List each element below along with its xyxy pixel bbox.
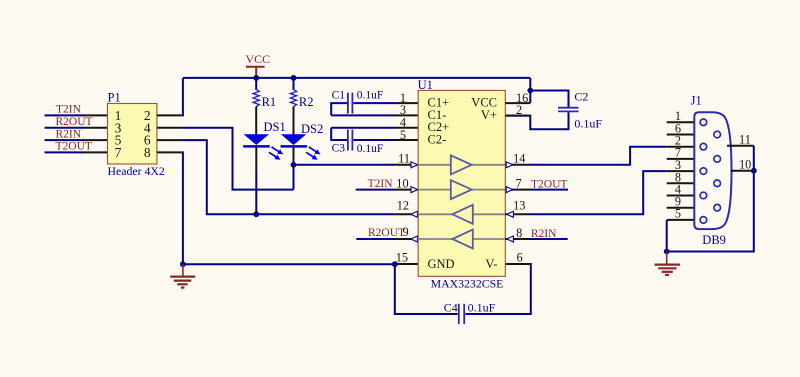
junction pin15 / ground rail: [392, 261, 398, 267]
buffer T1: [451, 155, 472, 174]
svg-text:Header 4X2: Header 4X2: [108, 164, 165, 178]
wire row12 to U1: [256, 213, 394, 215]
svg-text:C4: C4: [444, 301, 458, 315]
wire pin14 to DB9 pin2: [530, 147, 667, 165]
svg-text:11: 11: [398, 151, 410, 165]
pin P1.6: [157, 139, 182, 141]
junction C2 branch: [527, 88, 533, 94]
buffer R2: [452, 230, 472, 249]
wire P1.2 to VCC rail: [182, 78, 183, 116]
pin U1.11: [394, 164, 418, 166]
pin U1.7: [505, 189, 530, 191]
DB9 pin circles right column: [714, 131, 721, 211]
wire U1 pin3 row: [331, 114, 394, 116]
pin P1.7: [84, 151, 108, 153]
internal line row T2: [419, 189, 506, 191]
wire DS1 to pin 12 row: [255, 171, 257, 214]
svg-text:P1: P1: [108, 91, 121, 105]
svg-text:GND: GND: [428, 257, 455, 271]
wire net R2IN stub: [45, 139, 85, 141]
pin R2 bottom to DS2: [293, 107, 295, 136]
junction R2 top: [291, 75, 297, 81]
wire C4 loop left: [395, 264, 458, 314]
wire ground rail left: [183, 263, 395, 265]
svg-text:0.1uF: 0.1uF: [357, 89, 384, 101]
svg-text:9: 9: [402, 225, 408, 239]
svg-text:10: 10: [396, 177, 408, 191]
svg-text:U1: U1: [418, 78, 433, 92]
wire U1 pin4 row: [331, 127, 394, 129]
svg-text:V-: V-: [485, 257, 497, 271]
internal line row T1: [419, 164, 506, 166]
svg-text:R2: R2: [299, 95, 314, 109]
resistor R1: [253, 89, 259, 106]
pin U1.9: [394, 238, 418, 240]
arrow into pin 13: [507, 211, 514, 217]
pin U1.16: [505, 102, 530, 104]
pin P1.2: [157, 114, 182, 116]
svg-text:J1: J1: [691, 94, 702, 108]
wire shell pins to ground: [667, 146, 754, 252]
LED DS2: [281, 134, 321, 160]
svg-text:C2: C2: [574, 89, 588, 103]
svg-text:R2IN: R2IN: [56, 128, 82, 140]
pin U1.1: [394, 102, 418, 104]
wire VCC rail down to pin16: [529, 78, 531, 103]
svg-text:R2OUT: R2OUT: [368, 227, 405, 239]
wire net R2IN stub: [530, 238, 568, 240]
arrow out of pin 14: [506, 162, 513, 168]
arrow into pin 11: [411, 162, 418, 168]
junction DS1 row12: [253, 211, 259, 217]
wire U1 pin1 row: [354, 102, 395, 104]
svg-text:MAX3232CSE: MAX3232CSE: [431, 277, 504, 291]
svg-text:R1: R1: [262, 95, 277, 109]
svg-text:13: 13: [513, 199, 525, 213]
connector J1 DB9 shell: [694, 112, 731, 229]
junction DB9 ground: [664, 249, 670, 255]
wire C4 loop right: [465, 264, 530, 314]
svg-text:C2-: C2-: [428, 133, 447, 147]
svg-text:0.1uF: 0.1uF: [357, 143, 384, 155]
svg-text:10: 10: [739, 157, 751, 171]
pin DS1 cathode: [255, 147, 257, 172]
svg-text:T2OUT: T2OUT: [56, 141, 92, 153]
svg-text:0.1uF: 0.1uF: [574, 117, 602, 131]
svg-text:R2OUT: R2OUT: [56, 116, 93, 128]
junction R1 top: [253, 75, 259, 81]
wire DB9 pin5 to ground: [666, 220, 668, 252]
wire DS2 cathode down to T1IN corner: [293, 165, 295, 190]
DB9 pin circles left column: [700, 119, 707, 223]
arrow into pin 8: [507, 236, 514, 242]
pin U1.2: [505, 115, 530, 117]
pin P1.8: [157, 151, 182, 153]
pin U1.13: [505, 213, 530, 215]
internal line row R1: [419, 213, 506, 215]
svg-text:11: 11: [739, 132, 751, 146]
wire C2 bottom lead to V+: [506, 112, 569, 129]
pin U1.15: [395, 263, 418, 265]
LED DS1: [243, 134, 283, 160]
wire R1 top lead: [255, 78, 257, 90]
svg-text:DS1: DS1: [264, 120, 286, 134]
arrow into pin 10: [411, 187, 418, 193]
capacitor C3: [331, 128, 352, 151]
arrow out of pin 7: [506, 187, 513, 193]
power VCC bar symbol: [246, 67, 265, 77]
svg-text:7: 7: [115, 145, 122, 160]
pin R1 bottom to DS1: [255, 107, 257, 136]
svg-text:7: 7: [516, 177, 522, 191]
svg-text:C3: C3: [332, 143, 346, 155]
svg-text:R2IN: R2IN: [531, 228, 557, 240]
svg-text:14: 14: [513, 151, 525, 165]
connector J1 DB9 pins: [667, 122, 695, 220]
wire P1.6 to R1OUT net: [182, 140, 256, 214]
buffer R1: [452, 205, 472, 224]
svg-text:T2OUT: T2OUT: [531, 179, 567, 191]
pin P1.1: [84, 114, 108, 116]
wire U1 pin5 row: [354, 139, 395, 141]
wire C2 top lead: [530, 91, 568, 108]
arrow out of pin 9: [411, 236, 418, 242]
wire net T2OUT stub: [45, 151, 85, 153]
ground symbol DB9: [655, 252, 681, 275]
wire P1.8 to ground rail: [182, 152, 183, 264]
junction shell pin 10: [751, 168, 757, 174]
svg-text:8: 8: [516, 226, 522, 240]
svg-text:VCC: VCC: [246, 52, 271, 66]
wire pin13 to DB9 pin3: [530, 171, 667, 214]
wire VCC top rail: [183, 77, 530, 79]
internal line row R2: [419, 238, 506, 240]
pin U1.5: [394, 139, 418, 141]
pin DS2 cathode: [293, 147, 295, 165]
wire DS2 to pin 11 row: [294, 164, 395, 166]
wire net R2OUT stub: [45, 127, 85, 129]
pin U1.12: [394, 213, 418, 215]
wire net T2OUT stub: [530, 189, 568, 191]
junction DS2 row11: [291, 162, 297, 168]
pin P1.5: [84, 139, 108, 141]
capacitor C2: [558, 108, 579, 112]
IC U1 body: [418, 90, 505, 276]
wire net R2OUT row9: [356, 238, 394, 240]
pin DB9 shell 10: [731, 170, 754, 172]
svg-text:5: 5: [400, 128, 406, 142]
capacitor C1: [331, 93, 352, 116]
pin P1.3: [84, 127, 108, 129]
pin DB9 shell 11: [727, 145, 754, 147]
connector P1 body: [108, 104, 157, 165]
svg-text:DB9: DB9: [702, 233, 726, 247]
wire P1.4 to T1IN net: [182, 128, 294, 190]
pin U1.3: [394, 114, 418, 116]
pin U1.10: [394, 189, 418, 191]
arrow out of pin 12: [411, 211, 418, 217]
svg-text:0.1uF: 0.1uF: [468, 301, 496, 315]
pin U1.6: [505, 263, 530, 265]
capacitor C4: [459, 304, 464, 324]
ground symbol left: [170, 264, 195, 287]
junction ground left: [180, 261, 186, 267]
svg-text:8: 8: [144, 145, 151, 160]
wire R2 top lead: [293, 78, 295, 90]
wire net T2IN row10: [356, 189, 394, 191]
svg-text:T2IN: T2IN: [368, 178, 394, 190]
pin U1.14: [505, 164, 530, 166]
svg-text:DS2: DS2: [301, 122, 323, 136]
resistor R2: [290, 89, 296, 106]
svg-text:15: 15: [396, 250, 408, 264]
svg-text:2: 2: [516, 103, 522, 117]
svg-text:6: 6: [517, 250, 523, 264]
svg-text:V+: V+: [481, 108, 497, 122]
svg-text:5: 5: [675, 207, 681, 221]
buffer T2: [451, 180, 472, 199]
pin U1.4: [394, 127, 418, 129]
svg-text:12: 12: [397, 198, 409, 212]
pin U1.8: [505, 238, 530, 240]
svg-text:C1: C1: [332, 89, 346, 101]
wire net T2IN stub: [45, 114, 85, 116]
pin P1.4: [157, 127, 182, 129]
svg-text:T2IN: T2IN: [56, 104, 82, 116]
